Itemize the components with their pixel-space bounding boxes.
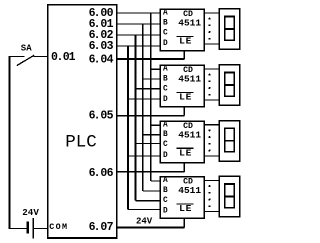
- svg-text:SA: SA: [21, 43, 32, 53]
- decoder U3 CD4511 box: [160, 121, 204, 163]
- svg-text:24V: 24V: [22, 207, 39, 218]
- U3 LE overline: [177, 147, 194, 149]
- svg-text:A: A: [163, 10, 168, 18]
- U4 label CD: [183, 178, 193, 187]
- svg-text:6.05: 6.05: [89, 110, 114, 123]
- svg-text:B: B: [163, 75, 168, 83]
- input label 0.01: [51, 51, 76, 64]
- svg-text:D: D: [163, 208, 168, 216]
- bus vertical 6.03: [127, 46, 129, 210]
- U3 to DS3 cable bottom: [204, 155, 219, 157]
- svg-text:D: D: [163, 152, 168, 160]
- svg-text:4511: 4511: [178, 129, 201, 140]
- bus vertical 6.02: [135, 35, 137, 201]
- U4 cable dots: [209, 185, 211, 207]
- svg-text:C: C: [163, 29, 168, 37]
- U1 label CD: [183, 10, 193, 19]
- decoder U4 CD4511 box: [160, 177, 204, 219]
- svg-text:B: B: [163, 19, 168, 27]
- U2 pin C: [163, 85, 168, 93]
- U4 pin B: [163, 187, 168, 195]
- U3 label LE: [179, 148, 192, 159]
- label 24V battery: [22, 207, 39, 218]
- U3 to DS3 cable top: [204, 124, 219, 126]
- bus vertical 6.01: [142, 24, 144, 191]
- wire U2 LE stub: [183, 107, 185, 116]
- wire tap U3 pin A: [151, 124, 161, 126]
- svg-text:COM: COM: [49, 222, 68, 232]
- svg-text:C: C: [163, 85, 168, 93]
- label COM: [49, 222, 68, 232]
- U3 label 4511: [178, 129, 201, 140]
- svg-text:LE: LE: [179, 92, 192, 103]
- svg-text:6.04: 6.04: [89, 54, 114, 67]
- battery 24V: [28, 218, 34, 238]
- U4 pin D: [163, 208, 168, 216]
- display DS4 digit: [225, 184, 235, 208]
- wire tap U4 pin B: [143, 190, 160, 192]
- output label 6.07: [89, 221, 114, 234]
- wire 6.03 to U1 pin D: [117, 45, 161, 47]
- svg-text:PLC: PLC: [65, 132, 97, 152]
- U4 label 4511: [178, 185, 201, 196]
- U4 pin C: [163, 197, 168, 205]
- wire U4 LE stub: [183, 218, 185, 227]
- svg-text:B: B: [163, 131, 168, 139]
- PLC box: [48, 5, 117, 238]
- wire tap U3 pin D: [128, 155, 160, 157]
- wire 6.05 to U2 LE: [117, 115, 185, 117]
- display DS3 box: [219, 121, 239, 162]
- svg-text:D: D: [163, 96, 168, 104]
- svg-text:D: D: [163, 40, 168, 48]
- wire 6.02 to U1 pin C: [117, 34, 161, 36]
- U1 pin B: [163, 19, 168, 27]
- wire tap U4 pin D: [128, 209, 160, 211]
- U1 cable dots: [209, 18, 211, 40]
- U4 to DS4 cable bottom: [204, 211, 219, 213]
- U2 LE overline: [177, 92, 194, 94]
- output label 6.04: [89, 54, 114, 67]
- wire tap U3 pin C: [135, 143, 160, 145]
- label SA: [21, 43, 32, 53]
- output label 6.03: [89, 40, 114, 53]
- U2 pin D: [163, 96, 168, 104]
- wire 6.07 to U4 LE: [117, 226, 185, 228]
- output label 6.02: [89, 29, 114, 42]
- svg-text:0.01: 0.01: [51, 51, 76, 64]
- svg-text:LE: LE: [179, 36, 192, 47]
- svg-text:A: A: [163, 177, 168, 185]
- svg-text:C: C: [163, 141, 168, 149]
- svg-text:4511: 4511: [178, 74, 201, 85]
- wire U1 LE stub: [183, 51, 185, 59]
- display DS2 box: [219, 65, 239, 106]
- switch SA: [9, 55, 48, 65]
- U1 to DS1 cable top: [204, 12, 219, 14]
- U3 pin C: [163, 141, 168, 149]
- U4 pin A: [163, 177, 168, 185]
- U1 to DS1 cable bottom: [204, 43, 219, 45]
- svg-text:A: A: [163, 66, 168, 74]
- wire tap U2 pin D: [128, 98, 160, 100]
- U4 label LE: [179, 203, 192, 214]
- U2 cable dots: [209, 74, 211, 96]
- wire tap U4 pin C: [135, 200, 160, 202]
- wire 6.00 to U1 pin A: [117, 12, 161, 14]
- U3 pin D: [163, 152, 168, 160]
- display DS4 box: [219, 176, 239, 217]
- wire 6.06 to U3 LE: [117, 171, 185, 173]
- U2 to DS2 cable top: [204, 68, 219, 70]
- svg-text:LE: LE: [179, 148, 192, 159]
- U3 label CD: [183, 122, 193, 131]
- U2 pin B: [163, 75, 168, 83]
- output label 6.01: [89, 18, 114, 31]
- wire tap U4 pin A: [151, 180, 161, 182]
- display DS1 box: [219, 9, 239, 50]
- label 24V right: [136, 216, 153, 226]
- U3 pin B: [163, 131, 168, 139]
- wire battery to COM: [34, 228, 47, 230]
- bus vertical 6.00: [150, 13, 152, 181]
- svg-text:4511: 4511: [178, 18, 201, 29]
- U1 LE overline: [177, 36, 194, 38]
- display DS3 digit: [225, 128, 235, 152]
- U4 to DS4 cable top: [204, 180, 219, 182]
- U2 pin A: [163, 66, 168, 74]
- wire U3 LE stub: [183, 163, 185, 172]
- U2 label LE: [179, 92, 192, 103]
- output label 6.00: [89, 7, 114, 20]
- U3 cable dots: [209, 129, 211, 151]
- wire tap U3 pin B: [143, 134, 160, 136]
- svg-text:6.06: 6.06: [89, 167, 114, 180]
- U1 pin C: [163, 29, 168, 37]
- display DS1 digit: [225, 16, 235, 40]
- svg-text:C: C: [163, 197, 168, 205]
- svg-text:4511: 4511: [178, 185, 201, 196]
- output label 6.05: [89, 110, 114, 123]
- display DS2 digit: [225, 72, 235, 96]
- svg-text:A: A: [163, 121, 168, 129]
- U3 pin A: [163, 121, 168, 129]
- U1 pin D: [163, 40, 168, 48]
- U4 LE overline: [177, 203, 194, 205]
- decoder U1 CD4511 box: [160, 9, 204, 51]
- wire 6.04 to U1 LE: [117, 58, 185, 60]
- U1 pin A: [163, 10, 168, 18]
- wire 6.01 to U1 pin B: [117, 23, 161, 25]
- wire tap U2 pin C: [135, 88, 160, 90]
- U2 label 4511: [178, 74, 201, 85]
- svg-text:24V: 24V: [136, 216, 153, 226]
- decoder U2 CD4511 box: [160, 65, 204, 107]
- svg-text:6.03: 6.03: [89, 40, 114, 53]
- U2 label CD: [183, 66, 193, 75]
- U1 label LE: [179, 36, 192, 47]
- wire left vertical: [9, 57, 11, 229]
- label PLC: [65, 132, 97, 152]
- output label 6.06: [89, 167, 114, 180]
- U1 label 4511: [178, 18, 201, 29]
- svg-text:B: B: [163, 187, 168, 195]
- U2 to DS2 cable bottom: [204, 99, 219, 101]
- wire tap U2 pin A: [151, 68, 161, 70]
- wire tap U2 pin B: [143, 78, 160, 80]
- svg-text:6.07: 6.07: [89, 221, 114, 234]
- svg-text:LE: LE: [179, 203, 192, 214]
- wire battery left: [9, 228, 27, 230]
